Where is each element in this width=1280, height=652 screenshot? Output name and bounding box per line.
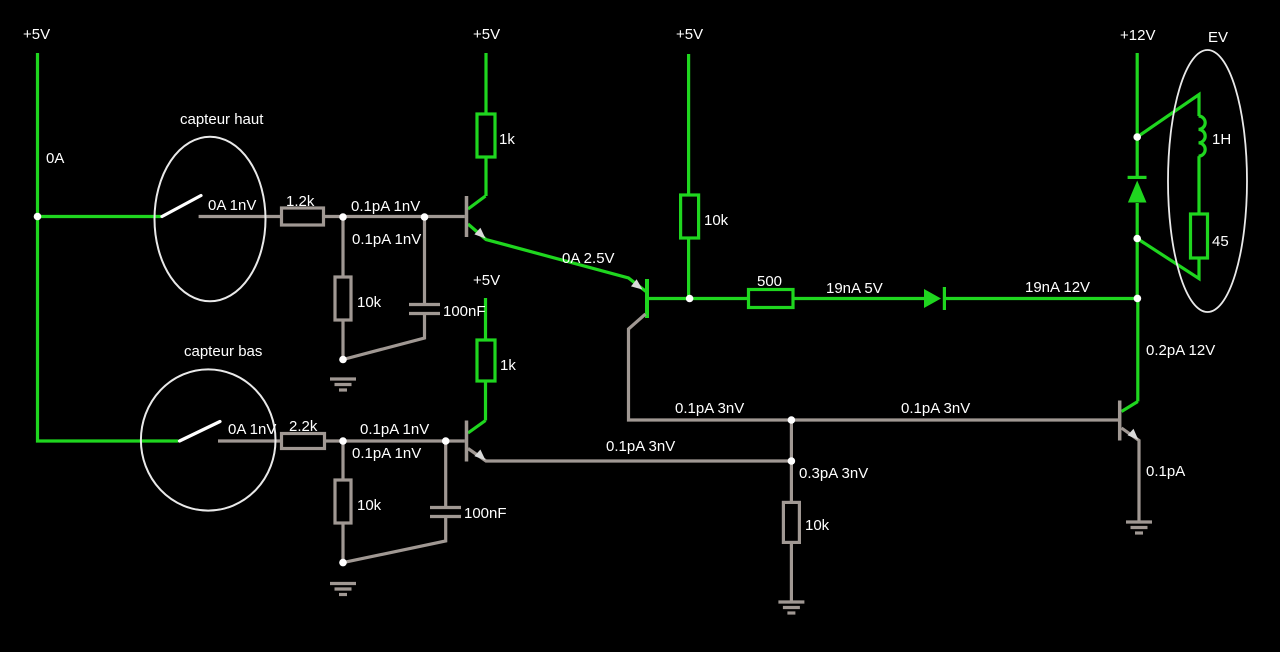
svg-text:0.1pA: 0.1pA [1146, 463, 1185, 480]
svg-text:19nA 5V: 19nA 5V [826, 280, 883, 297]
svg-text:0.1pA 3nV: 0.1pA 3nV [606, 438, 675, 455]
svg-text:0.1pA 3nV: 0.1pA 3nV [675, 400, 744, 417]
svg-text:+5V: +5V [676, 26, 703, 43]
svg-text:0.1pA 1nV: 0.1pA 1nV [360, 421, 429, 438]
svg-text:1.2k: 1.2k [286, 193, 315, 210]
svg-text:2.2k: 2.2k [289, 418, 318, 435]
svg-text:0.1pA 1nV: 0.1pA 1nV [352, 231, 421, 248]
svg-text:1H: 1H [1212, 131, 1231, 148]
svg-text:0A 2.5V: 0A 2.5V [562, 250, 615, 267]
svg-text:0.1pA 1nV: 0.1pA 1nV [351, 198, 420, 215]
svg-text:+12V: +12V [1120, 27, 1155, 44]
svg-text:10k: 10k [805, 517, 830, 534]
svg-text:0.1pA 3nV: 0.1pA 3nV [901, 400, 970, 417]
svg-text:100nF: 100nF [443, 303, 486, 320]
svg-text:45: 45 [1212, 233, 1229, 250]
svg-text:10k: 10k [357, 294, 382, 311]
svg-text:+5V: +5V [23, 26, 50, 43]
svg-text:0.2pA 12V: 0.2pA 12V [1146, 342, 1215, 359]
svg-text:0.1pA 1nV: 0.1pA 1nV [352, 445, 421, 462]
svg-text:19nA 12V: 19nA 12V [1025, 279, 1090, 296]
svg-text:100nF: 100nF [464, 505, 507, 522]
svg-text:10k: 10k [704, 212, 729, 229]
svg-text:+5V: +5V [473, 272, 500, 289]
svg-text:capteur haut: capteur haut [180, 111, 264, 128]
svg-text:1k: 1k [500, 357, 516, 374]
svg-text:500: 500 [757, 273, 782, 290]
svg-text:+5V: +5V [473, 26, 500, 43]
svg-text:0.3pA 3nV: 0.3pA 3nV [799, 465, 868, 482]
svg-text:10k: 10k [357, 497, 382, 514]
svg-text:1k: 1k [499, 131, 515, 148]
svg-text:0A 1nV: 0A 1nV [208, 197, 256, 214]
svg-text:0A 1nV: 0A 1nV [228, 421, 276, 438]
svg-text:capteur bas: capteur bas [184, 343, 262, 360]
svg-text:EV: EV [1208, 29, 1228, 46]
svg-text:0A: 0A [46, 150, 64, 167]
